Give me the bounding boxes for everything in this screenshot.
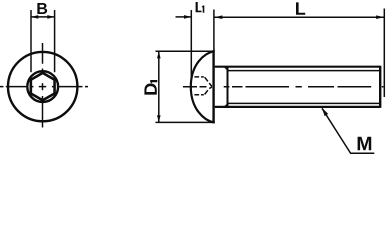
- screw end face line: [379, 66, 381, 108]
- M leader line: [322, 108, 374, 153]
- L1 extension line left (dome apex): [190, 10, 192, 80]
- label L: [296, 2, 305, 14]
- vertical centerline: [42, 43, 44, 128]
- thread lead-in chamfer top: [225, 67, 228, 71]
- B dimension line: [31, 16, 54, 18]
- D1 dimension line: [158, 52, 160, 123]
- D1 arrowhead bottom: [157, 115, 161, 122]
- head dome arc: [191, 51, 214, 122]
- L1 arrowhead (outside, pointing right): [184, 15, 191, 19]
- D1 extension line bottom: [156, 121, 215, 123]
- L1 dimension line left tail: [176, 16, 192, 18]
- thread lead-in chamfer bottom: [225, 103, 228, 106]
- horizontal centerline: [0, 86, 88, 88]
- hex socket hidden line bottom wall: [194, 94, 203, 96]
- hex socket hidden line top wall: [194, 76, 203, 78]
- thread start vertical line: [227, 67, 229, 107]
- label D1: [144, 80, 157, 95]
- B extension line right: [54, 10, 56, 72]
- L arrowhead right: [376, 15, 384, 19]
- B arrowhead right: [47, 15, 54, 19]
- center mark cross: [39, 83, 46, 90]
- D1 extension line top: [156, 50, 215, 52]
- socket cone top dashes: [205, 77, 212, 86]
- hex socket (width across flats B): [31, 73, 55, 100]
- label L1: [196, 2, 205, 13]
- B extension line left: [30, 10, 32, 72]
- M leader arrowhead: [322, 108, 328, 116]
- shank major diameter top line: [215, 66, 380, 68]
- inner circle (socket bore): [27, 71, 58, 102]
- L arrowhead left: [214, 15, 222, 19]
- screw axis centerline: [183, 86, 383, 88]
- B arrowhead left: [31, 15, 38, 19]
- label M: [358, 137, 372, 150]
- thread minor diameter bottom line: [228, 102, 379, 104]
- L extension line right: [383, 9, 385, 98]
- label B: [37, 3, 47, 14]
- thread minor diameter top line: [228, 70, 379, 72]
- L1/L extension line at head face: [213, 10, 215, 52]
- head flat face: [212, 50, 214, 123]
- outer circle (head outline D1): [8, 52, 77, 121]
- socket cone bottom dashes: [205, 87, 212, 94]
- shank major diameter bottom line: [215, 106, 380, 108]
- L dimension line: [215, 16, 385, 18]
- D1 arrowhead top: [157, 51, 161, 58]
